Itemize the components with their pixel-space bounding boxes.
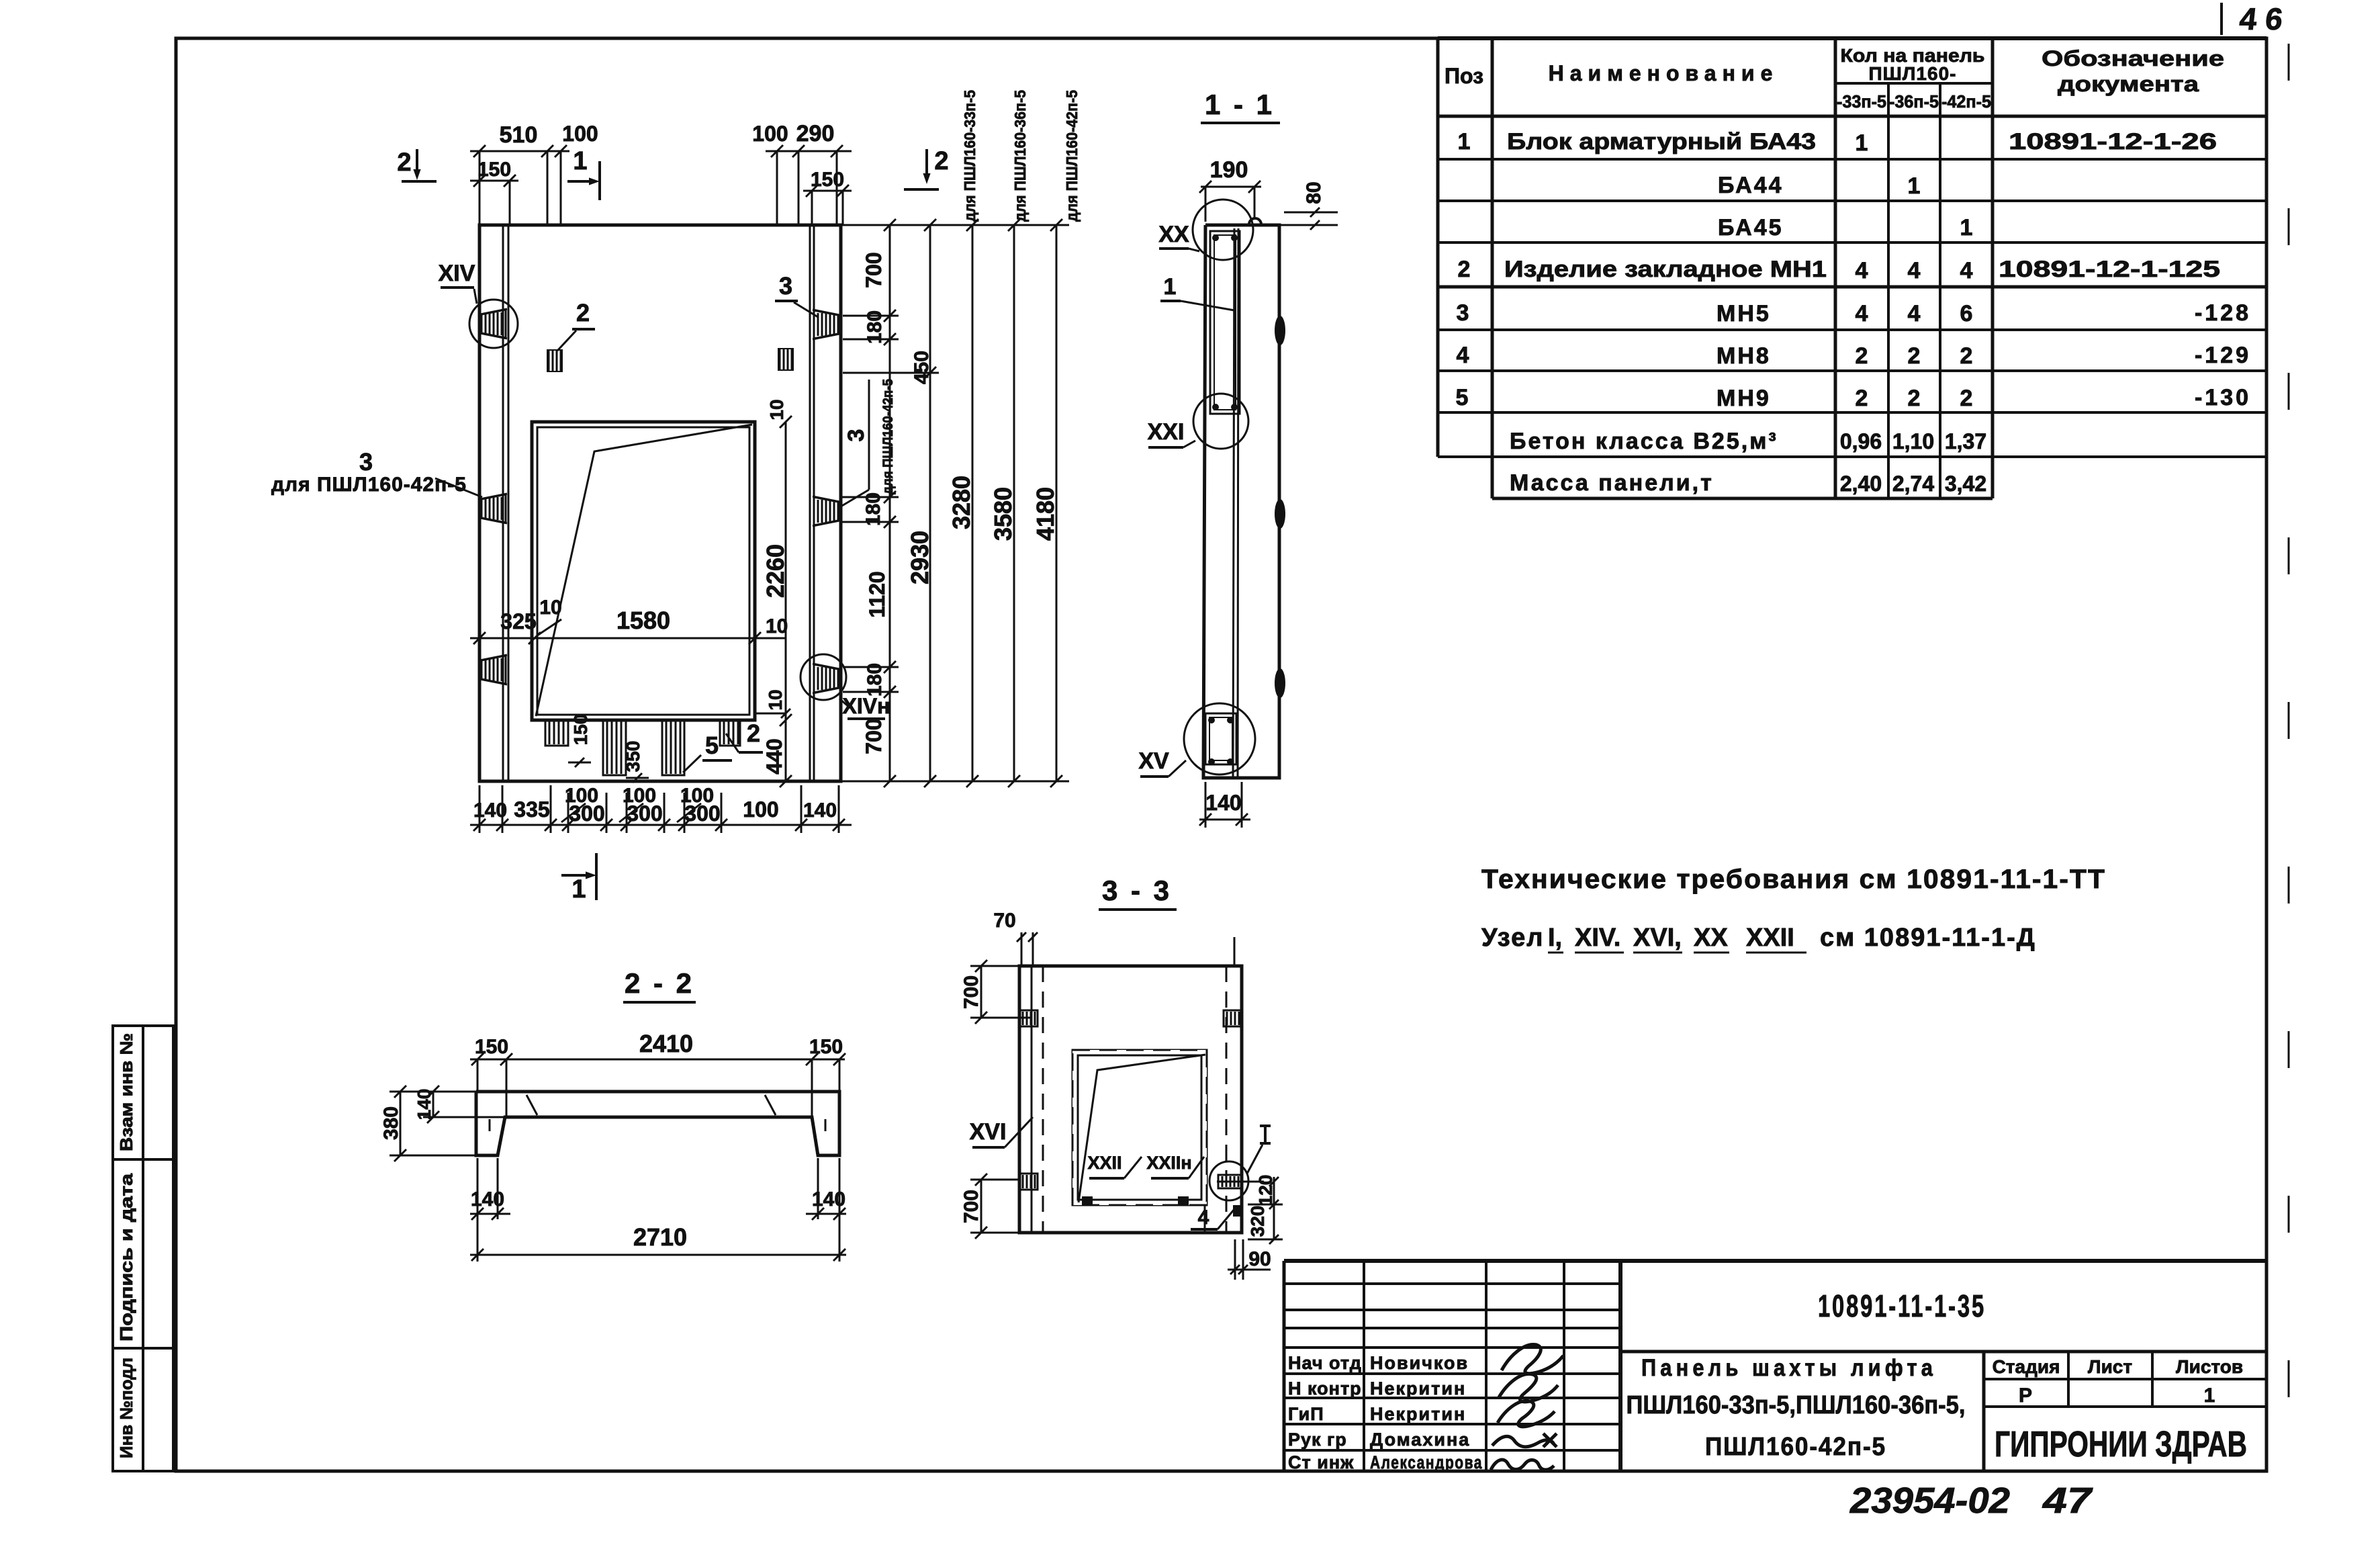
panel outline bbox=[479, 225, 841, 781]
channel profile bbox=[476, 1092, 839, 1155]
svg-text:для ПШЛ160-42п-5: для ПШЛ160-42п-5 bbox=[271, 474, 467, 496]
svg-text:23954-02: 23954-02 bbox=[1849, 1481, 2010, 1521]
svg-text:4: 4 bbox=[1198, 1206, 1209, 1229]
svg-text:700: 700 bbox=[862, 252, 886, 288]
svg-text:XIVн: XIVн bbox=[843, 694, 890, 718]
svg-text:Лист: Лист bbox=[2088, 1356, 2132, 1377]
svg-text:450: 450 bbox=[911, 351, 933, 384]
svg-text:300: 300 bbox=[684, 801, 720, 826]
svg-text:150: 150 bbox=[570, 714, 591, 746]
label XIVn bbox=[839, 699, 850, 708]
svg-text:ПШЛ160-42п-5: ПШЛ160-42п-5 bbox=[1705, 1433, 1886, 1461]
svg-text:XX: XX bbox=[1694, 924, 1728, 952]
plan outline bbox=[1019, 966, 1242, 1233]
svg-text:4180: 4180 bbox=[1032, 487, 1059, 541]
svg-text:2: 2 bbox=[1908, 386, 1921, 411]
svg-text:3280: 3280 bbox=[948, 476, 975, 529]
svg-text:5: 5 bbox=[705, 732, 719, 759]
svg-text:300: 300 bbox=[627, 801, 662, 826]
svg-text:Р: Р bbox=[2019, 1384, 2032, 1407]
svg-text:290: 290 bbox=[796, 121, 835, 146]
detail circle XXI bbox=[1193, 394, 1248, 449]
right dims 120/320/90 bbox=[1248, 1204, 1283, 1206]
chain 2930 bbox=[929, 225, 931, 781]
svg-text:70: 70 bbox=[993, 910, 1015, 932]
svg-text:Домахина: Домахина bbox=[1370, 1429, 1470, 1450]
signatures bbox=[1502, 1344, 1563, 1373]
circled embedded part I bbox=[1218, 1175, 1242, 1188]
svg-text:2410: 2410 bbox=[639, 1030, 693, 1057]
svg-text:150: 150 bbox=[477, 159, 511, 181]
svg-text:для ПШЛ160-42п-5: для ПШЛ160-42п-5 bbox=[1063, 90, 1081, 222]
dimension 700 top bbox=[980, 966, 982, 1018]
svg-text:БА45: БА45 bbox=[1718, 215, 1784, 240]
svg-text:Панель шахты лифта: Панель шахты лифта bbox=[1641, 1355, 1937, 1381]
svg-text:-130: -130 bbox=[2195, 385, 2251, 410]
svg-text:1,37: 1,37 bbox=[1945, 429, 1986, 453]
svg-text:2: 2 bbox=[1458, 257, 1471, 282]
svg-text:2: 2 bbox=[1960, 343, 1973, 369]
chain 3580 bbox=[1013, 225, 1015, 781]
lifting hook bbox=[1249, 218, 1261, 224]
svg-text:1: 1 bbox=[1960, 215, 1973, 240]
svg-text:2: 2 bbox=[934, 147, 948, 175]
svg-text:80: 80 bbox=[1303, 181, 1325, 204]
svg-text:Технические требования см 1: Технические требования см 10891-11-1-ТТ bbox=[1481, 865, 2106, 894]
svg-text:10891-12-1-125: 10891-12-1-125 bbox=[1999, 257, 2220, 282]
svg-text:для ПШЛ160-36п-5: для ПШЛ160-36п-5 bbox=[1011, 90, 1029, 222]
svg-text:140: 140 bbox=[414, 1089, 434, 1120]
svg-text:Блок арматурный БА43: Блок арматурный БА43 bbox=[1507, 129, 1816, 155]
dimension 150 top-left bbox=[470, 180, 518, 182]
detail circle XIVn bbox=[800, 654, 846, 700]
svg-text:10: 10 bbox=[766, 399, 787, 420]
svg-text:1: 1 bbox=[1458, 129, 1471, 155]
svg-text:140: 140 bbox=[473, 799, 507, 822]
svg-text:0,96: 0,96 bbox=[1840, 429, 1882, 453]
svg-text:4: 4 bbox=[1457, 343, 1469, 368]
label 2 bottom bbox=[726, 734, 739, 752]
svg-text:Нач отд: Нач отд bbox=[1288, 1353, 1362, 1373]
svg-text:300: 300 bbox=[569, 801, 604, 826]
bottom dimension chain bbox=[470, 824, 852, 826]
top dims 150/2410/150 bbox=[470, 1059, 845, 1061]
svg-text:47: 47 bbox=[2042, 1481, 2094, 1521]
svg-text:Новичков: Новичков bbox=[1370, 1353, 1469, 1373]
svg-text:Изделие закладное МН1: Изделие закладное МН1 bbox=[1504, 257, 1827, 282]
svg-text:Рук гр: Рук гр bbox=[1288, 1429, 1347, 1450]
svg-text:140: 140 bbox=[1205, 791, 1241, 815]
svg-text:335: 335 bbox=[514, 797, 549, 822]
dimension 380 bbox=[400, 1092, 402, 1155]
svg-text:2: 2 bbox=[397, 148, 411, 177]
detail circle XIV bbox=[469, 300, 518, 348]
svg-text:1: 1 bbox=[1856, 130, 1868, 156]
svg-text:2,74: 2,74 bbox=[1892, 472, 1934, 496]
svg-text:XVI,: XVI, bbox=[1633, 924, 1682, 952]
svg-text:1,10: 1,10 bbox=[1892, 429, 1934, 453]
svg-text:700: 700 bbox=[960, 1190, 982, 1223]
svg-text:3 - 3: 3 - 3 bbox=[1102, 875, 1172, 906]
svg-text:2710: 2710 bbox=[633, 1223, 687, 1251]
svg-text:для ПШЛ160-33п-5: для ПШЛ160-33п-5 bbox=[961, 90, 978, 222]
section mark 1 bottom bbox=[561, 874, 591, 877]
embedded part MN mid-right bbox=[813, 496, 839, 526]
svg-text:XVI: XVI bbox=[970, 1119, 1007, 1145]
svg-text:Узел: Узел bbox=[1481, 924, 1544, 952]
bottom armature box bbox=[1205, 713, 1236, 764]
svg-text:150: 150 bbox=[809, 1036, 843, 1058]
svg-text:120: 120 bbox=[1255, 1175, 1276, 1206]
svg-text:I,: I, bbox=[1548, 924, 1562, 952]
svg-text:Некритин: Некритин bbox=[1370, 1404, 1466, 1424]
svg-text:190: 190 bbox=[1210, 157, 1248, 183]
dimension 700 bottom bbox=[980, 1180, 982, 1233]
detail circle XX bbox=[1193, 200, 1253, 260]
svg-text:Ст инж: Ст инж bbox=[1288, 1452, 1354, 1472]
leg marks bbox=[489, 1119, 491, 1131]
label 5 bbox=[683, 755, 701, 773]
svg-text:3: 3 bbox=[359, 448, 373, 476]
svg-text:140: 140 bbox=[471, 1188, 504, 1210]
edge bumps (embedded parts) bbox=[1275, 316, 1285, 345]
bottom anchor tabs bbox=[545, 720, 568, 746]
embedded square item2 left bbox=[547, 349, 563, 372]
svg-text:XXIIн: XXIIн bbox=[1146, 1153, 1191, 1173]
svg-text:-33п-5: -33п-5 bbox=[1837, 91, 1886, 112]
svg-text:140: 140 bbox=[812, 1188, 845, 1210]
dimension 80 bbox=[1284, 212, 1338, 214]
svg-text:см 10891-11-1-Д: см 10891-11-1-Д bbox=[1820, 924, 2036, 952]
dimension 190 bbox=[1201, 186, 1261, 188]
stage/sheet cells bbox=[2067, 1352, 2070, 1407]
svg-text:380: 380 bbox=[380, 1106, 402, 1140]
svg-text:2: 2 bbox=[1908, 343, 1921, 369]
svg-text:-129: -129 bbox=[2195, 343, 2251, 368]
embedded part MN top-right bbox=[813, 310, 839, 339]
svg-text:10: 10 bbox=[539, 597, 561, 619]
svg-text:2: 2 bbox=[1856, 343, 1868, 369]
svg-text:ГИПРОНИИ ЗДРАВ: ГИПРОНИИ ЗДРАВ bbox=[1995, 1424, 2247, 1464]
svg-text:МН8: МН8 bbox=[1717, 343, 1771, 369]
svg-text:6: 6 bbox=[1960, 301, 1973, 326]
title block bbox=[1284, 1259, 2267, 1263]
svg-text:ПШЛ160-33п-5,ПШЛ160-36п-5,: ПШЛ160-33п-5,ПШЛ160-36п-5, bbox=[1627, 1391, 1966, 1419]
svg-text:Инв №подл: Инв №подл bbox=[116, 1358, 136, 1458]
svg-text:100: 100 bbox=[562, 122, 598, 146]
svg-text:4: 4 bbox=[1960, 258, 1973, 283]
dimension 140 bottom bbox=[1199, 819, 1250, 821]
svg-text:3: 3 bbox=[1457, 300, 1469, 326]
left margin strip bbox=[113, 1026, 173, 1471]
svg-text:-36п-5: -36п-5 bbox=[1889, 91, 1939, 112]
svg-text:Н контр: Н контр bbox=[1288, 1378, 1362, 1399]
svg-text:XXII: XXII bbox=[1746, 924, 1794, 952]
svg-text:150: 150 bbox=[475, 1036, 508, 1058]
svg-text:2260: 2260 bbox=[762, 544, 789, 598]
label I bbox=[1264, 1126, 1267, 1143]
svg-text:Поз: Поз bbox=[1445, 64, 1483, 88]
top dimension chain 510/100 bbox=[470, 150, 569, 152]
specification table bbox=[1438, 36, 2267, 40]
svg-text:Взам инв №: Взам инв № bbox=[116, 1033, 136, 1151]
section body bbox=[1203, 225, 1279, 778]
slab break marks bbox=[527, 1095, 537, 1115]
svg-text:510: 510 bbox=[500, 122, 538, 148]
svg-text:4: 4 bbox=[1856, 301, 1868, 326]
armature block (item 1) bbox=[1210, 231, 1240, 414]
svg-text:2,40: 2,40 bbox=[1840, 472, 1882, 496]
svg-text:4: 4 bbox=[1856, 258, 1868, 283]
svg-text:10: 10 bbox=[765, 689, 786, 710]
svg-text:МН5: МН5 bbox=[1717, 301, 1771, 326]
svg-text:документа: документа bbox=[2058, 72, 2199, 96]
svg-text:4: 4 bbox=[1908, 258, 1921, 283]
svg-text:100: 100 bbox=[752, 122, 788, 146]
svg-text:2930: 2930 bbox=[906, 531, 933, 584]
svg-text:2: 2 bbox=[1856, 386, 1868, 411]
svg-text:90: 90 bbox=[1248, 1248, 1271, 1270]
svg-text:10891-11-1-35: 10891-11-1-35 bbox=[1818, 1288, 1986, 1323]
svg-text:ГиП: ГиП bbox=[1288, 1404, 1324, 1424]
fold diagonal bbox=[1079, 1055, 1205, 1202]
svg-text:XXII: XXII bbox=[1087, 1153, 1122, 1173]
svg-text:5: 5 bbox=[1456, 385, 1469, 410]
fold diagonal in opening bbox=[536, 425, 752, 716]
svg-text:1 - 1: 1 - 1 bbox=[1205, 89, 1275, 120]
svg-text:3: 3 bbox=[779, 272, 792, 300]
page number 46 handwritten bbox=[2220, 3, 2223, 35]
dimension 150 top-right bbox=[803, 190, 852, 192]
rib embedded parts bbox=[1019, 1010, 1038, 1026]
svg-text:Подпись и дата: Подпись и дата bbox=[116, 1173, 136, 1341]
svg-text:1: 1 bbox=[2204, 1384, 2215, 1407]
embedded part MN bottom-left bbox=[480, 655, 507, 685]
svg-text:10: 10 bbox=[766, 615, 788, 637]
dashed fold line right of frame bbox=[2288, 44, 2290, 1468]
svg-text:Стадия: Стадия bbox=[1993, 1356, 2060, 1377]
detail circle XV bbox=[1184, 703, 1255, 775]
right rib lines bbox=[809, 225, 811, 781]
svg-text:XIV: XIV bbox=[439, 261, 475, 286]
chain 3280 bbox=[972, 225, 974, 781]
svg-text:Листов: Листов bbox=[2176, 1356, 2243, 1377]
bottom 140 dims bbox=[470, 1213, 510, 1215]
svg-text:Масса панели,т: Масса панели,т bbox=[1510, 470, 1714, 496]
svg-text:2: 2 bbox=[747, 719, 760, 747]
svg-text:700: 700 bbox=[862, 718, 886, 754]
embedded part MN mid-left bbox=[480, 494, 507, 523]
opening dashed bbox=[1072, 1050, 1207, 1205]
svg-text:Некритин: Некритин bbox=[1370, 1378, 1466, 1399]
svg-text:100: 100 bbox=[743, 797, 778, 822]
anchor marks bbox=[1082, 1196, 1093, 1205]
svg-text:320: 320 bbox=[1247, 1206, 1268, 1237]
embedded part MN top-left bbox=[480, 309, 507, 339]
svg-text:2: 2 bbox=[576, 299, 590, 326]
right chain 700/180/1120 bbox=[889, 225, 891, 781]
svg-text:XX: XX bbox=[1158, 222, 1189, 247]
dimension 2710 bbox=[470, 1254, 846, 1256]
svg-text:XV: XV bbox=[1138, 748, 1169, 774]
svg-text:XIV.: XIV. bbox=[1575, 924, 1620, 952]
svg-text:1: 1 bbox=[571, 875, 586, 903]
svg-text:Наименование: Наименование bbox=[1549, 61, 1779, 85]
chain extension lines bbox=[841, 224, 1069, 226]
svg-text:4 6: 4 6 bbox=[2238, 1, 2284, 36]
svg-text:1: 1 bbox=[573, 147, 587, 175]
svg-text:1: 1 bbox=[1908, 173, 1921, 199]
svg-text:4: 4 bbox=[1908, 301, 1921, 326]
svg-text:150: 150 bbox=[811, 169, 844, 191]
svg-text:1: 1 bbox=[1164, 274, 1177, 300]
svg-text:для ПШЛ160-42п-5: для ПШЛ160-42п-5 bbox=[880, 379, 896, 494]
svg-text:XXI: XXI bbox=[1148, 419, 1185, 445]
svg-text:-42п-5: -42п-5 bbox=[1941, 91, 1991, 112]
rib lines bbox=[1031, 966, 1033, 1233]
svg-text:2: 2 bbox=[1960, 386, 1973, 411]
svg-text:3580: 3580 bbox=[989, 487, 1017, 541]
svg-text:1580: 1580 bbox=[616, 607, 670, 634]
svg-text:2 - 2: 2 - 2 bbox=[625, 967, 694, 999]
svg-text:Александрова: Александрова bbox=[1370, 1452, 1483, 1472]
svg-text:МН9: МН9 bbox=[1717, 386, 1771, 411]
svg-text:-128: -128 bbox=[2195, 300, 2251, 326]
svg-text:ПШЛ160-: ПШЛ160- bbox=[1869, 63, 1957, 84]
embedded part MN bottom-right bbox=[813, 664, 839, 693]
chain 4180 bbox=[1056, 225, 1058, 781]
dimension 2260 and 440 bbox=[785, 422, 787, 781]
svg-text:3,42: 3,42 bbox=[1945, 472, 1986, 496]
svg-text:440: 440 bbox=[762, 738, 786, 774]
svg-text:БА44: БА44 bbox=[1718, 173, 1784, 198]
top dimension chain 100/290 bbox=[766, 150, 852, 152]
svg-text:1120: 1120 bbox=[865, 571, 889, 617]
opening (double border) bbox=[532, 422, 755, 720]
svg-text:325: 325 bbox=[500, 609, 536, 633]
svg-text:Бетон класса В25,м³: Бетон класса В25,м³ bbox=[1510, 429, 1778, 454]
svg-text:700: 700 bbox=[960, 975, 982, 1009]
svg-text:350: 350 bbox=[623, 741, 643, 773]
embedded square item2 right bbox=[778, 348, 794, 371]
svg-text:10891-12-1-26: 10891-12-1-26 bbox=[2009, 129, 2217, 155]
left rib lines bbox=[502, 225, 504, 781]
dimension 1580 / 325 bbox=[470, 637, 786, 640]
svg-text:Обозначение: Обозначение bbox=[2042, 46, 2224, 71]
svg-text:3: 3 bbox=[843, 429, 869, 442]
dimension 140 left vertical bbox=[432, 1092, 434, 1117]
svg-text:140: 140 bbox=[803, 799, 837, 822]
